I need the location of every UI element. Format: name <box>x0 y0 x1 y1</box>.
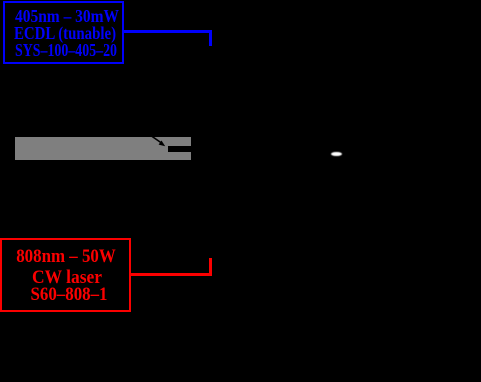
label text line: 405nm - 30mW <box>0 8 156 25</box>
leader line blue horizontal <box>124 30 212 33</box>
label text line: ECDL (tunable) <box>0 25 151 42</box>
label text line: CW laser <box>0 268 159 287</box>
label text line: S60-808-1 <box>0 285 158 304</box>
lens (white ellipse) <box>331 152 342 157</box>
notch in gray slab <box>168 146 191 152</box>
leader line blue vertical tick <box>209 30 212 46</box>
leader line red vertical tick <box>209 258 212 275</box>
leader line red horizontal <box>129 273 212 275</box>
label text line: SYS-100-405-20 <box>0 42 146 59</box>
label box: 808nm CW laser (red) <box>0 238 131 312</box>
arrow pointing at notch <box>140 125 180 155</box>
label box: 405nm ECDL (blue) <box>3 1 124 64</box>
label text line: 808nm - 50W <box>0 247 155 266</box>
laser diode bar (gray slab) <box>15 137 191 160</box>
